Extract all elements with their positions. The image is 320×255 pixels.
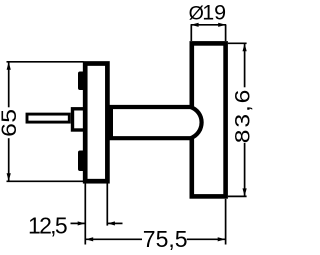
dim 75,5 right extension line (handle right edge) [225, 199, 227, 245]
spindle bar [27, 114, 69, 122]
dim 65 line upper segment [8, 62, 10, 108]
dim 83,6 top extension line [228, 42, 247, 44]
svg-text:83,6: 83,6 [230, 88, 254, 143]
svg-text:65: 65 [0, 109, 21, 137]
top fixing tab [78, 72, 85, 91]
dim 12,5 left arrow [78, 221, 85, 225]
dim Ø19 extension line left [190, 25, 192, 41]
dim 65 top arrow [7, 62, 11, 70]
dim 83,6 bottom arrow [243, 188, 247, 196]
neck (with rounded tip at grip) [105, 107, 202, 138]
dim Ø19 right arrow [218, 23, 226, 27]
svg-text:12,5: 12,5 [28, 213, 67, 239]
dim 65 line lower segment [8, 138, 10, 181]
svg-text:75,5: 75,5 [143, 226, 188, 252]
dim Ø19 left arrow [191, 23, 199, 27]
window handle technical drawing [0, 0, 255, 255]
dim 12,5 right leader [108, 222, 123, 224]
spindle collar [73, 109, 86, 130]
dim 65 top extension line [7, 61, 84, 63]
rosette plate [85, 64, 107, 182]
dim 83,6 line upper segment [244, 43, 246, 87]
dim Ø19 extension line right [225, 25, 227, 41]
dim 75,5 line left segment [85, 238, 142, 240]
handle grip bar [192, 43, 226, 196]
dim 12,5 right arrow [108, 221, 115, 225]
dim 83,6 bottom extension line [228, 195, 247, 197]
dim 75,5 left arrow [85, 237, 93, 241]
dim 12,5 left extension line (rosette left edge) [84, 184, 86, 245]
dim 65 bottom extension line [7, 180, 84, 182]
dim 75,5 line right segment [187, 238, 226, 240]
dim 65 bottom arrow [7, 173, 11, 181]
neck base solid block [105, 105, 114, 140]
dim 83,6 line lower segment [244, 143, 246, 197]
dim Ø19 line [191, 24, 227, 26]
dim 12,5 left leader [71, 222, 86, 224]
dim 75,5 right arrow [218, 237, 226, 241]
bottom fixing tab [78, 151, 85, 172]
dim 83,6 top arrow [243, 44, 247, 52]
dim 12,5 right extension line (rosette right edge) [106, 184, 108, 226]
svg-text:Ø19: Ø19 [189, 1, 227, 25]
